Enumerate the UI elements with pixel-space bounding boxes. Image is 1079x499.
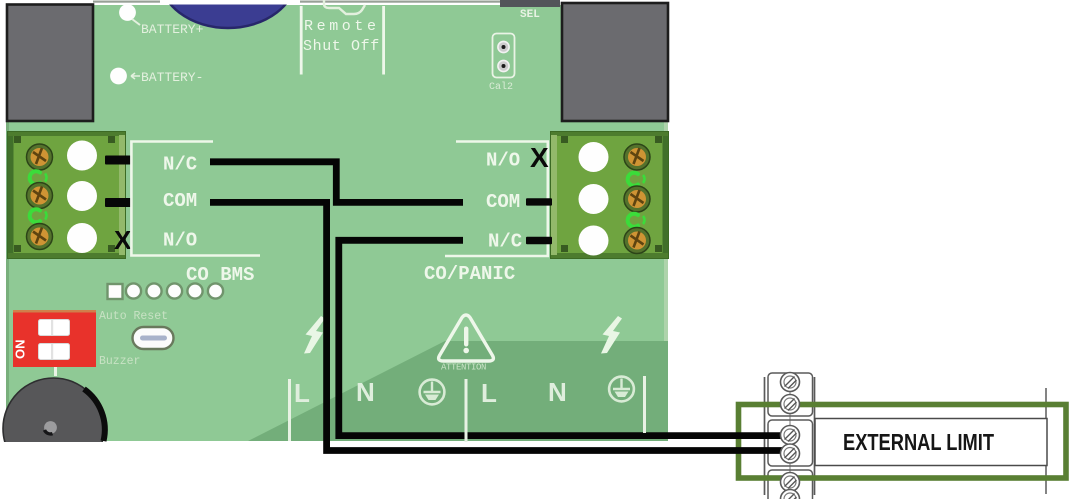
label N/O right	[486, 150, 520, 172]
lightning bolt symbol left	[304, 316, 325, 354]
wire left N/C to right COM	[210, 162, 463, 203]
label Buzzer	[99, 355, 140, 368]
svg-text:EXTERNAL LIMIT: EXTERNAL LIMIT	[843, 429, 994, 455]
svg-text:Buzzer: Buzzer	[99, 355, 140, 368]
svg-text:Remote: Remote	[304, 18, 380, 35]
svg-text:Shut Off: Shut Off	[303, 38, 380, 55]
lightning bolt symbol right	[601, 316, 622, 354]
X mark J1 N/O not used	[114, 225, 132, 255]
screw terminal S3	[27, 224, 53, 250]
wire hole N/C	[67, 141, 97, 171]
label L (left input)	[288, 378, 310, 441]
terminal strip screw row4 (lower wire)	[781, 444, 800, 463]
screw terminal S1	[27, 144, 53, 170]
capacitor C1 (blue electrolytic, cut at top)	[159, 0, 300, 28]
DIN terminal strip rail	[765, 373, 1047, 499]
relay K1 (top-left gray block)	[7, 5, 93, 122]
svg-text:N/O: N/O	[486, 150, 520, 172]
wire stub J2 COM	[526, 198, 552, 205]
screw terminal S5	[624, 186, 650, 212]
label N/C left	[163, 154, 197, 176]
label N (right input)	[548, 377, 567, 407]
silkscreen divider line mid	[465, 379, 468, 442]
wire left COM to external limit lower screw	[210, 202, 782, 450]
svg-text:N: N	[356, 377, 375, 407]
svg-text:N/C: N/C	[163, 154, 197, 176]
silkscreen bracket CO BMS	[131, 142, 260, 256]
test point BATTERY-	[110, 68, 203, 85]
terminal strip screw row2	[781, 395, 800, 414]
svg-text:COM: COM	[163, 190, 197, 212]
wire stub J1 COM	[105, 198, 131, 207]
wire hole COM right	[579, 184, 609, 214]
LED D3	[628, 173, 645, 186]
silkscreen SEL label	[520, 9, 540, 21]
LED indicator row	[108, 283, 224, 299]
EXTERNAL LIMIT label box	[815, 419, 1047, 466]
label COM right	[486, 191, 520, 213]
svg-text:ON: ON	[13, 340, 28, 360]
silkscreen Remote Shut Off	[300, 0, 385, 75]
silkscreen bracket CO/PANIC	[445, 142, 548, 257]
svg-text:L: L	[481, 378, 497, 408]
terminal strip screw row5	[781, 473, 800, 492]
screw terminal S4	[624, 144, 650, 170]
label N (left input)	[356, 377, 375, 407]
ground symbol left	[420, 380, 445, 405]
svg-text:N: N	[548, 377, 567, 407]
label N/C right	[488, 231, 522, 253]
svg-text:N/O: N/O	[163, 230, 197, 252]
screw terminal S2	[27, 183, 53, 209]
LED D2	[30, 209, 47, 222]
svg-text:SEL: SEL	[520, 9, 540, 21]
svg-text:X: X	[530, 142, 549, 173]
LED D1	[30, 171, 47, 184]
label Auto Reset	[99, 310, 168, 323]
wire hole N/O	[67, 223, 97, 253]
relay K2 (top-right gray block)	[562, 3, 668, 121]
screw terminal S6	[624, 228, 650, 254]
svg-text:COM: COM	[486, 191, 520, 213]
X mark J2 N/O not used	[530, 142, 549, 173]
label CO/PANIC	[424, 263, 515, 285]
ground symbol right	[609, 377, 634, 402]
svg-text:Auto Reset: Auto Reset	[99, 310, 168, 323]
label COM left	[163, 190, 197, 212]
terminal strip screw row1	[781, 373, 800, 392]
svg-text:N/C: N/C	[488, 231, 522, 253]
terminal strip screw row6 (partial at image edge)	[781, 490, 800, 499]
wire stub J2 N/C	[526, 237, 552, 244]
label L (right input)	[481, 378, 497, 408]
terminal block J1 (CO BMS relay output)	[8, 132, 125, 258]
svg-text:BATTERY+: BATTERY+	[141, 22, 204, 37]
wire right N/C to external limit upper screw	[339, 240, 782, 435]
svg-text:L: L	[294, 378, 310, 408]
component edge bar above SEL	[500, 0, 560, 7]
button Auto Reset	[133, 327, 174, 349]
svg-text:BATTERY-: BATTERY-	[141, 70, 203, 85]
LED D4	[628, 214, 645, 227]
wire hole N/O right	[579, 142, 609, 172]
green highlight frame	[739, 405, 1067, 479]
svg-text:X: X	[114, 225, 132, 255]
terminal block J2 (CO/PANIC relay output)	[551, 132, 668, 258]
PCB board	[6, 1, 668, 442]
terminal strip screw row3 (upper wire)	[781, 426, 800, 445]
silkscreen divider line right	[643, 376, 646, 433]
svg-text:Cal2: Cal2	[489, 81, 513, 93]
test point BATTERY+	[119, 4, 204, 37]
wire hole COM	[67, 181, 97, 211]
DIP switch SW1	[13, 310, 97, 376]
wire hole N/C right	[579, 226, 609, 256]
svg-text:ATTENTION: ATTENTION	[441, 363, 486, 373]
wire stub J1 N/C	[105, 156, 131, 165]
jumper Cal2 pads	[489, 34, 515, 94]
warning triangle ATTENTION	[439, 315, 494, 373]
buzzer BZ1	[3, 378, 105, 479]
svg-text:CO/PANIC: CO/PANIC	[424, 263, 515, 285]
label N/O left	[163, 230, 197, 252]
label CO BMS	[186, 264, 254, 286]
